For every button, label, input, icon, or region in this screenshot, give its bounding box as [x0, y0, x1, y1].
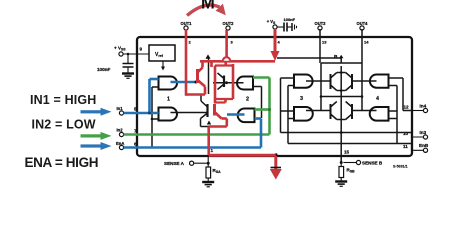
svg-text:7: 7 [134, 129, 137, 134]
svg-text:14: 14 [364, 40, 369, 45]
svg-text:In1: In1 [117, 106, 124, 111]
svg-text:15: 15 [344, 149, 350, 154]
svg-text:In2: In2 [117, 128, 124, 133]
svg-text:11: 11 [403, 144, 408, 149]
svg-text:1: 1 [167, 97, 170, 103]
svg-text:2: 2 [246, 97, 249, 103]
svg-text:In3: In3 [420, 130, 427, 135]
svg-text:6: 6 [134, 141, 137, 146]
svg-text:9: 9 [140, 47, 143, 52]
svg-text:3: 3 [300, 96, 303, 102]
svg-text:OUT2: OUT2 [223, 21, 235, 26]
svg-text:100nF: 100nF [97, 67, 110, 72]
svg-text:12: 12 [404, 105, 410, 110]
svg-text:SENSE B: SENSE B [362, 160, 383, 165]
svg-text:ENA = HIGH: ENA = HIGH [25, 155, 99, 170]
svg-text:In4: In4 [420, 104, 427, 109]
svg-text:100nF: 100nF [284, 17, 296, 22]
svg-text:5: 5 [134, 107, 137, 112]
svg-text:IN2 = LOW: IN2 = LOW [32, 117, 96, 131]
svg-text:EnB: EnB [419, 143, 429, 148]
svg-text:OUT1: OUT1 [181, 21, 193, 26]
svg-text:B: B [334, 54, 338, 60]
svg-text:EnA: EnA [116, 141, 124, 146]
svg-text:SENSE A: SENSE A [164, 161, 185, 166]
svg-text:OUT4: OUT4 [357, 21, 369, 26]
svg-text:4: 4 [376, 96, 379, 102]
svg-text:13: 13 [322, 40, 327, 45]
svg-text:M: M [201, 0, 215, 13]
svg-text:S-5691/1: S-5691/1 [393, 165, 408, 169]
svg-text:IN1 = HIGH: IN1 = HIGH [30, 93, 96, 107]
svg-text:OUT3: OUT3 [315, 21, 327, 26]
